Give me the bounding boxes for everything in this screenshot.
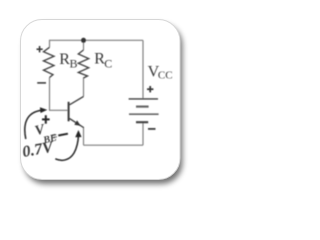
svg-text:B: B [70, 56, 78, 70]
svg-text:C: C [104, 56, 112, 70]
svg-text:CC: CC [158, 70, 173, 82]
